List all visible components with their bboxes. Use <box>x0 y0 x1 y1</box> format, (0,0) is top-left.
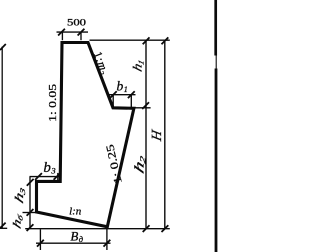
extension line right of 500 <box>80 32 82 40</box>
tick bottom of H <box>162 225 169 232</box>
page border lower section <box>215 69 218 252</box>
tick top of left line <box>0 44 6 50</box>
extension line left of 500 <box>61 32 63 40</box>
tick between h1 and h2 <box>142 102 149 109</box>
dimension line H (outer right) <box>164 40 166 229</box>
tick bottom of h3 <box>27 209 34 216</box>
dimension line 500 (crest width) <box>57 31 89 33</box>
svg-text:500: 500 <box>67 19 86 29</box>
dimension line B (bottom width) <box>36 242 111 244</box>
tick left of B <box>37 240 44 247</box>
tick right of B <box>104 240 111 247</box>
tick bottom of h2 <box>143 225 150 232</box>
extension right of b1 <box>130 95 132 108</box>
dimension line b1 (upper berm) <box>109 94 136 96</box>
tick right of b3 <box>54 173 61 180</box>
extension right of b3 <box>57 173 59 181</box>
extension left of B <box>39 229 41 250</box>
dimension line b3 (lower left berm) <box>30 176 62 178</box>
tick left of b1 <box>110 91 117 98</box>
tick top of h1 <box>143 37 150 44</box>
page border thin middle section <box>215 55 217 69</box>
tick right of 500 <box>78 29 85 36</box>
extension left of b1 <box>112 95 114 108</box>
dam cross-section profile outline <box>37 43 134 227</box>
svg-text:1: 0.05: 1: 0.05 <box>47 83 59 122</box>
tick top of h3 (berm level) <box>27 179 34 186</box>
dimension line h1/h2 (inner right) <box>145 40 147 229</box>
tick left of b3 <box>35 173 42 180</box>
tick top of H <box>162 37 169 44</box>
extension right of B <box>106 228 108 251</box>
tick bottom of left line <box>0 223 6 229</box>
tick right of b1 <box>128 91 135 98</box>
dimension line h3 / hb (lower left vertical) <box>29 177 31 229</box>
crest level extension line to right <box>90 39 170 41</box>
extension line from b1 berm to h-dimension <box>134 107 151 109</box>
tick left of 500 <box>58 29 65 36</box>
extension line at lower-left corner level <box>23 212 37 214</box>
left cropped dimension line <box>1 47 3 229</box>
base level extension line (short left piece) <box>0 227 7 229</box>
page border line at right <box>214 0 217 56</box>
tick bottom of hb <box>27 224 34 231</box>
base level extension line <box>25 228 170 230</box>
svg-text:l:n: l:n <box>69 206 82 218</box>
